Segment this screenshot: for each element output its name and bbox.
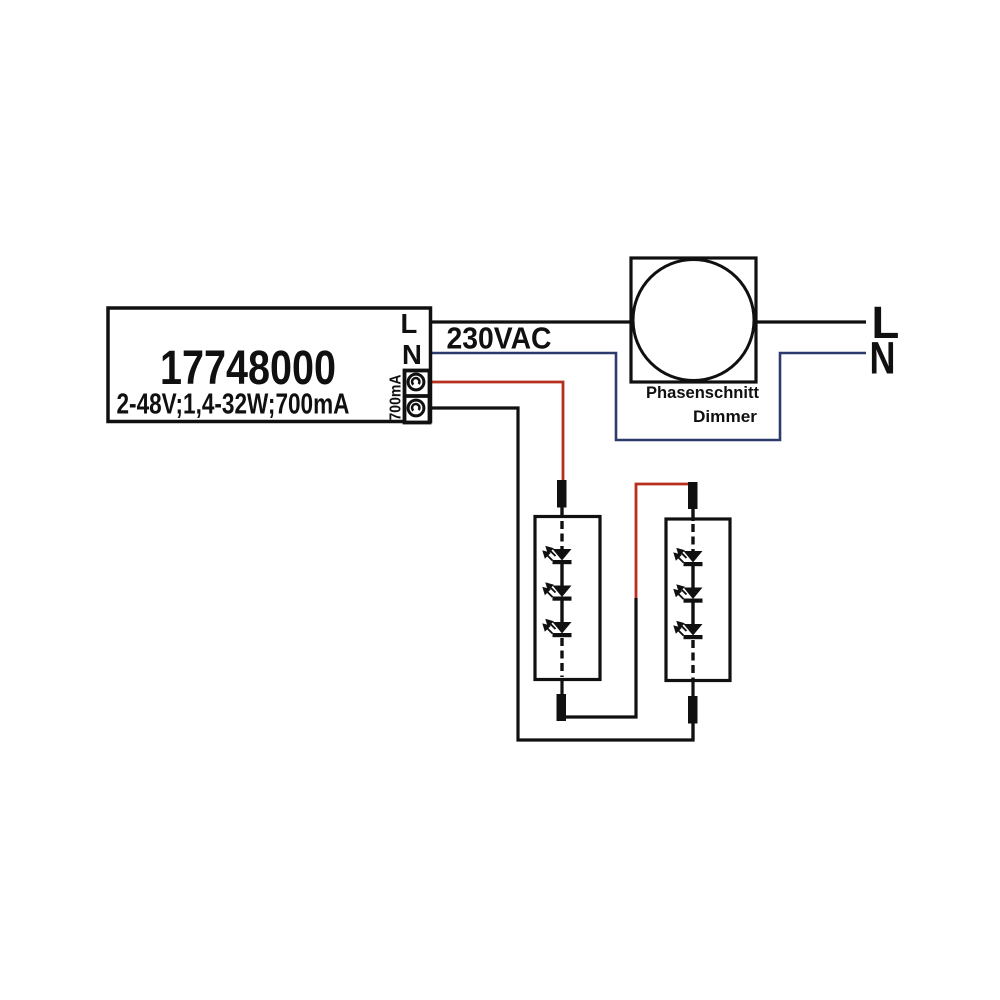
svg-text:2-48V;1,4-32W;700mA: 2-48V;1,4-32W;700mA xyxy=(117,389,350,421)
svg-text:L: L xyxy=(401,308,418,339)
svg-text:N: N xyxy=(402,339,422,370)
svg-text:700mA: 700mA xyxy=(388,374,405,420)
svg-text:Dimmer: Dimmer xyxy=(693,407,757,426)
svg-text:N: N xyxy=(870,333,896,384)
svg-text:Phasenschnitt: Phasenschnitt xyxy=(646,383,759,402)
svg-text:17748000: 17748000 xyxy=(160,341,336,395)
svg-text:230VAC: 230VAC xyxy=(447,322,552,356)
